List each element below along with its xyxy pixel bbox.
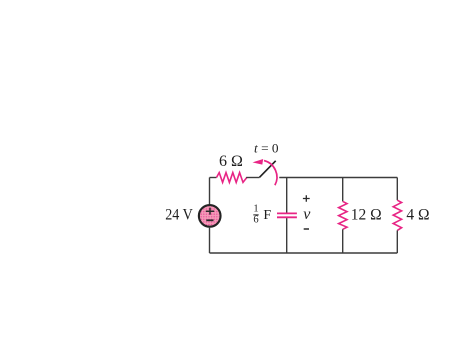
svg-text:1: 1: [253, 203, 258, 214]
svg-text:F: F: [263, 208, 271, 223]
svg-text:24 V: 24 V: [165, 206, 193, 223]
resistor R 12ohm branch lower wire: [342, 229, 344, 253]
resistor R 4ohm branch upper wire: [396, 178, 398, 201]
wire switch to top-right rail: [279, 177, 397, 179]
wire left rail upper: [209, 178, 211, 205]
switch arc arrow: [253, 159, 277, 185]
resistor R 6ohm: [217, 173, 247, 183]
switch blade: [260, 161, 276, 178]
value label 1/6 F: [253, 203, 271, 225]
capacitor branch lower wire: [286, 218, 288, 253]
svg-text:6 Ω: 6 Ω: [219, 153, 243, 170]
resistor R 12ohm: [339, 201, 347, 229]
bottom rail wire: [210, 252, 398, 254]
resistor R 12ohm branch upper wire: [342, 178, 344, 202]
capacitor C 1/6 F plates: [277, 213, 297, 217]
svg-text:6: 6: [253, 215, 258, 226]
voltage source Vs 24V: [199, 205, 221, 227]
svg-text:12 Ω: 12 Ω: [351, 206, 382, 223]
resistor R 4ohm: [393, 200, 401, 230]
svg-text:v: v: [303, 206, 311, 223]
capacitor branch upper wire: [286, 178, 288, 213]
wire left rail lower: [209, 227, 211, 253]
node label + v -: [303, 195, 311, 229]
resistor R 4ohm branch lower wire: [396, 230, 398, 253]
svg-text:4 Ω: 4 Ω: [406, 206, 429, 223]
wire resistor to switch pivot: [246, 177, 259, 179]
wire top rail left stub: [210, 177, 217, 179]
svg-text:t = 0: t = 0: [254, 141, 279, 156]
